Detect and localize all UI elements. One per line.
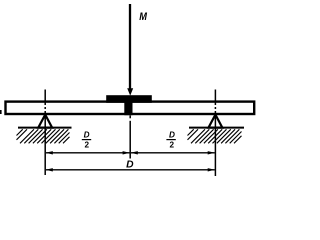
label D/2 right: [166, 130, 175, 149]
svg-text:D: D: [126, 160, 134, 171]
svg-text:2: 2: [85, 141, 90, 150]
dimension line D bottom: [46, 169, 215, 171]
svg-text:D: D: [169, 130, 175, 139]
dimension line D/2 left: [46, 152, 130, 154]
right support triangle: [209, 115, 223, 128]
center extension line: [129, 116, 131, 159]
left ground hatching: [17, 129, 70, 143]
load block on top of beam: [106, 95, 152, 103]
left support triangle: [38, 115, 52, 128]
right extension / center line: [214, 90, 216, 177]
svg-text:D: D: [84, 130, 90, 139]
dimension line D/2 right: [131, 152, 215, 154]
right ground hatching: [188, 129, 242, 143]
svg-text:M: M: [139, 11, 147, 23]
center pin through beam: [124, 101, 132, 116]
left ground line: [18, 127, 72, 129]
force arrow shaft: [129, 4, 131, 90]
label D/2 left: [82, 130, 91, 149]
svg-text:2: 2: [170, 141, 175, 150]
force arrowhead: [127, 88, 133, 95]
beam (specimen bar): [6, 102, 255, 114]
left extension / center line: [44, 90, 46, 176]
scan speck at left margin: [0, 110, 2, 114]
right ground line: [189, 127, 244, 129]
